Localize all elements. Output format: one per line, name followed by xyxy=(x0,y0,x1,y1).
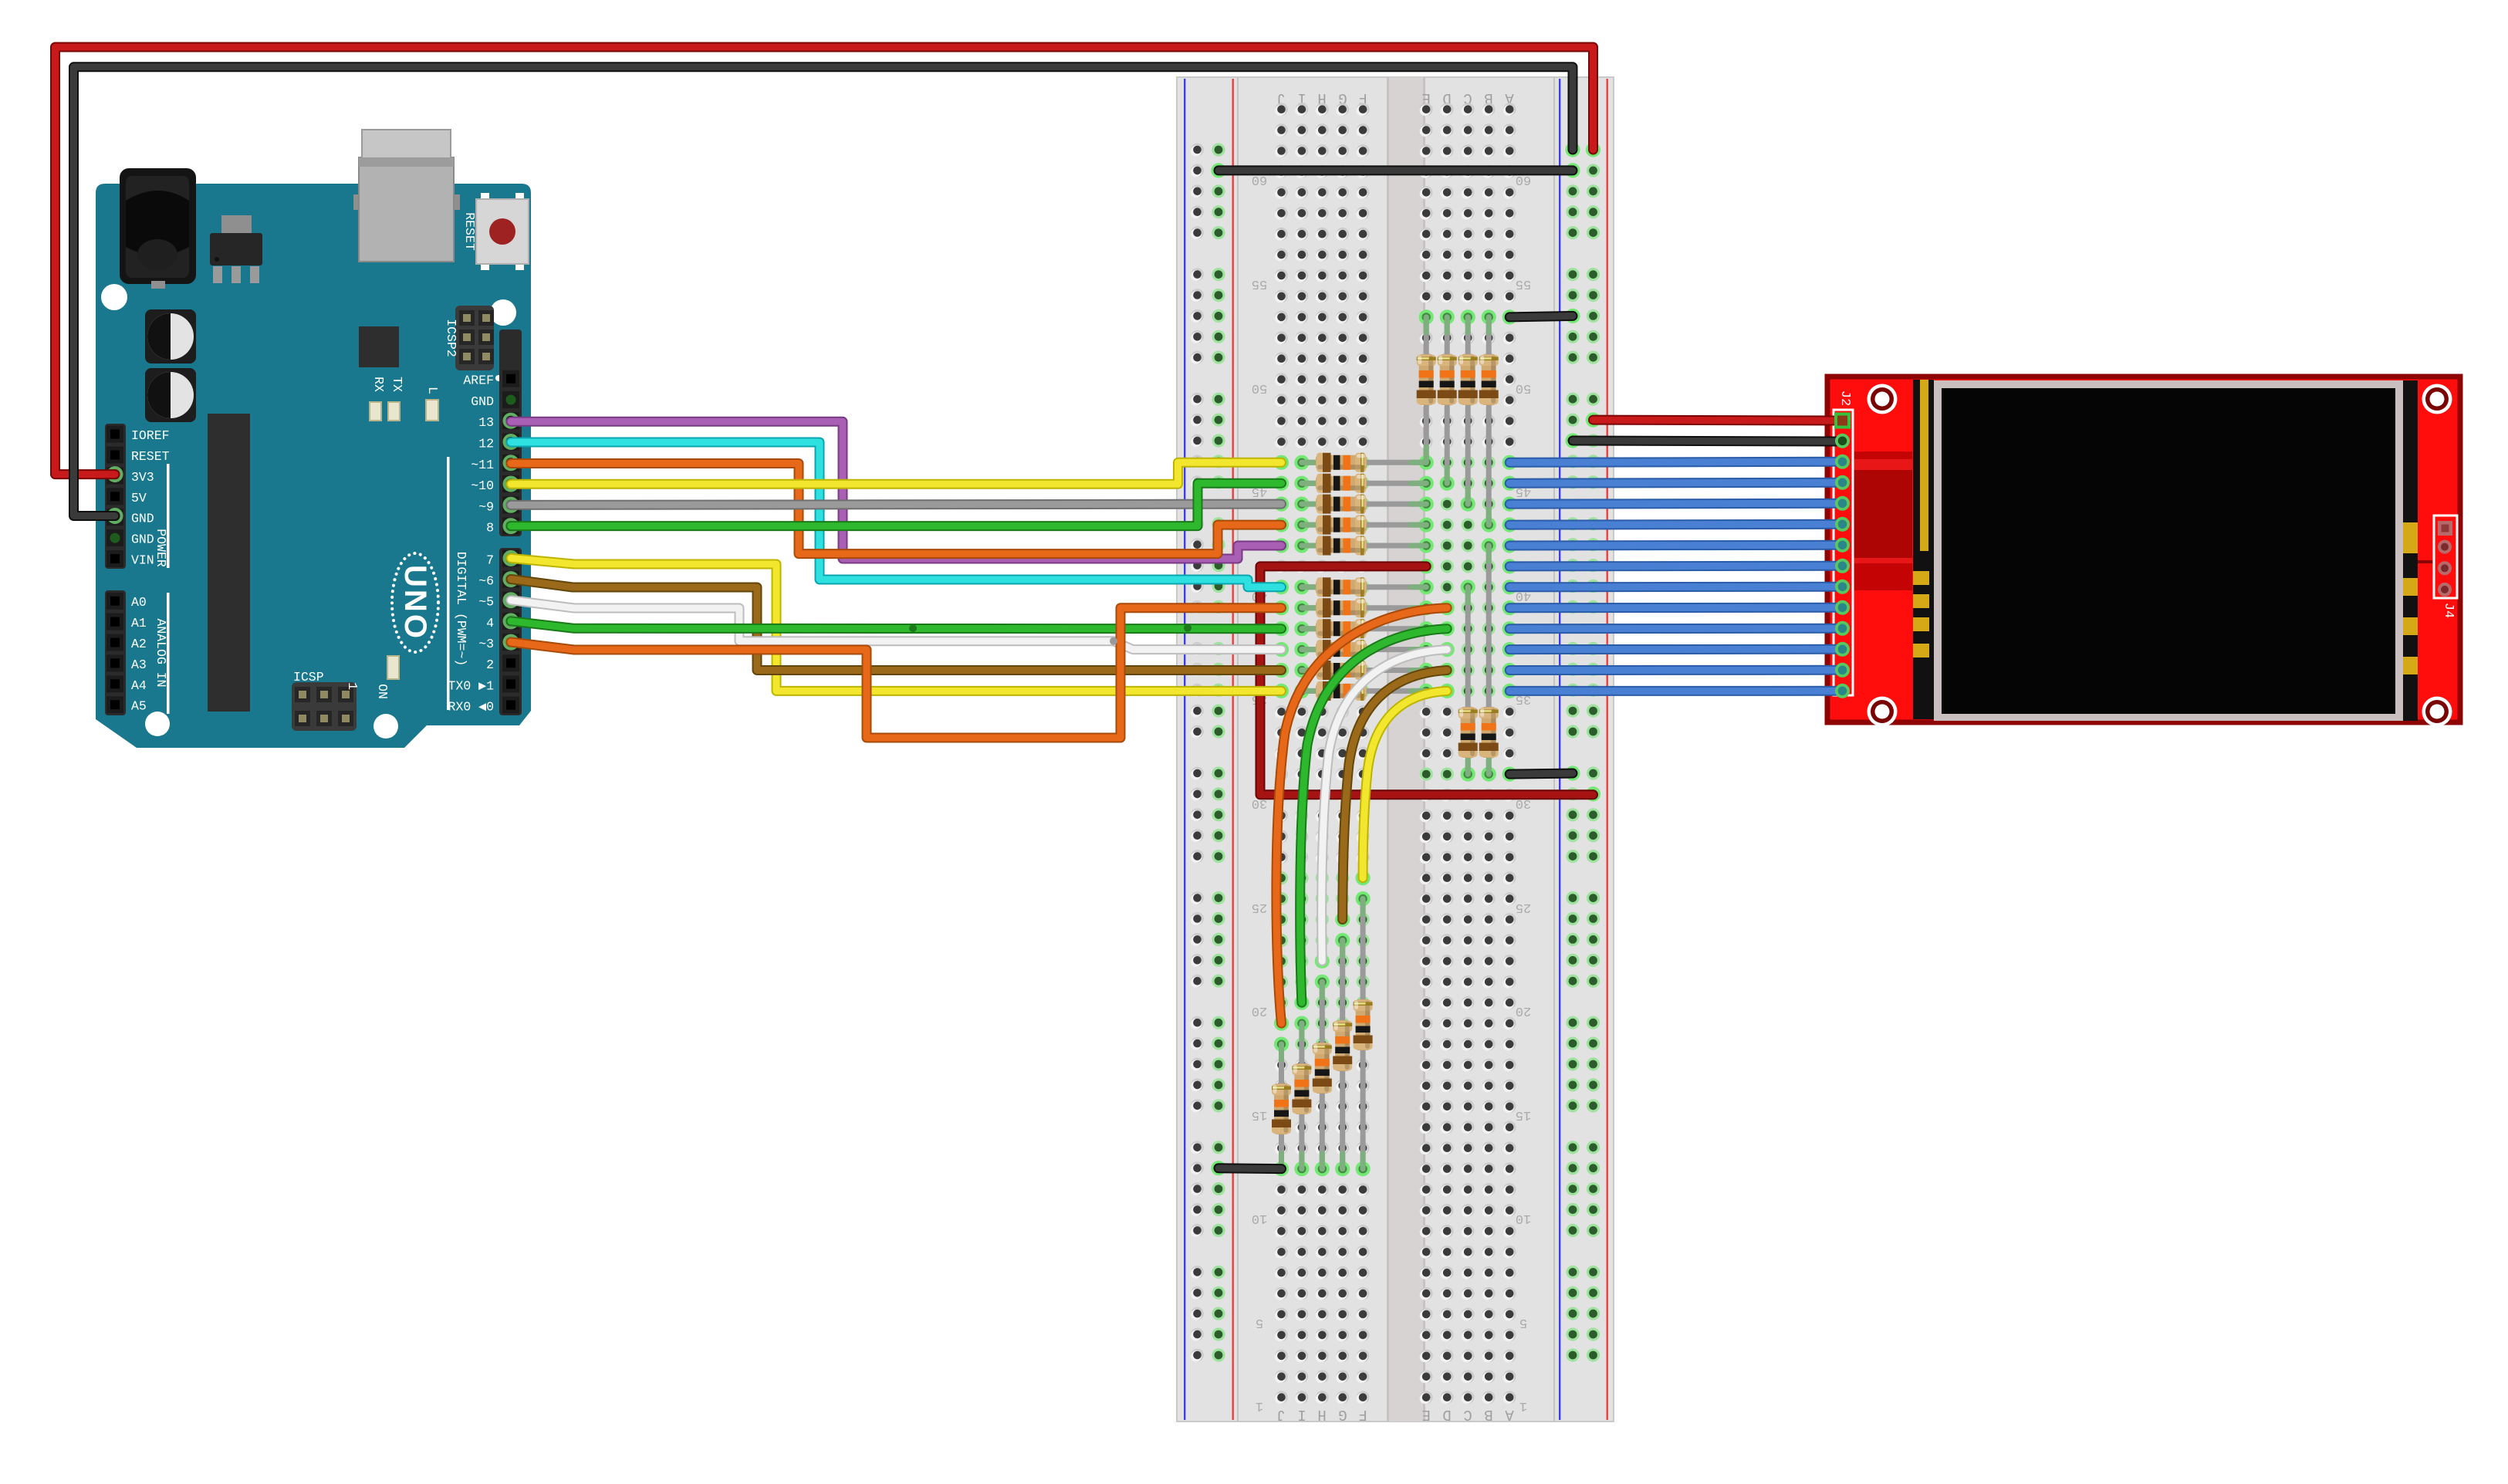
svg-text:AREF: AREF xyxy=(463,374,494,388)
svg-text:4: 4 xyxy=(486,616,494,630)
svg-text:A1: A1 xyxy=(131,616,147,630)
svg-text:A0: A0 xyxy=(131,595,147,610)
breadboard row numbers xyxy=(1252,172,1531,1413)
Arduino Uno board xyxy=(96,184,531,748)
TFT J2 pin 1 square pad xyxy=(1834,413,1851,429)
svg-text:A4: A4 xyxy=(131,678,147,693)
wire W22 purple D13 to J42 xyxy=(511,421,1282,559)
wire W2 black GND to right blue rail xyxy=(74,67,1573,516)
resistor R10 leads xyxy=(1302,668,1426,673)
svg-text:~6: ~6 xyxy=(478,574,494,589)
wire W12 blue A41 to TFT pin8 xyxy=(1509,561,1837,572)
wire W28 yellow D7 to J35 xyxy=(511,558,1282,691)
svg-text:F: F xyxy=(1358,1406,1367,1423)
svg-text:C: C xyxy=(1463,1406,1472,1423)
svg-text:UNO: UNO xyxy=(398,565,432,641)
wire W29 brown D6 to J36 xyxy=(511,580,1282,671)
breadboard right power rail holes xyxy=(1566,143,1600,1361)
resistor R17 xyxy=(1479,707,1499,758)
wire W9 blue A44 to TFT pin5 xyxy=(1509,499,1837,509)
wire W33 orange D39 to J19 xyxy=(1276,608,1447,1023)
svg-text:50: 50 xyxy=(1252,380,1267,395)
svg-text:D: D xyxy=(1442,1406,1451,1423)
svg-text:10: 10 xyxy=(1516,1211,1531,1225)
resistor R20 leads xyxy=(1320,982,1325,1168)
wire W32 orange D3 to J39 xyxy=(511,608,1282,738)
svg-text:TX0 ▶1: TX0 ▶1 xyxy=(448,678,495,693)
resistor R9 leads xyxy=(1302,647,1426,652)
resistor R7 leads xyxy=(1302,605,1426,610)
svg-text:8: 8 xyxy=(486,521,494,536)
resistor R6 xyxy=(1316,577,1367,597)
Arduino USB connector xyxy=(353,130,460,262)
TFT display board xyxy=(1827,377,2460,722)
svg-text:13: 13 xyxy=(478,415,494,430)
svg-text:55: 55 xyxy=(1252,276,1267,291)
wire W34 green D38 to I20 xyxy=(1300,629,1448,1002)
svg-text:5V: 5V xyxy=(131,491,147,505)
svg-text:5: 5 xyxy=(1256,1315,1263,1330)
svg-text:55: 55 xyxy=(1516,276,1531,291)
resistor R12 xyxy=(1417,354,1436,405)
Arduino digital pin labels xyxy=(448,374,495,715)
wire W35 white D37 to H22 xyxy=(1322,650,1447,962)
svg-text:~5: ~5 xyxy=(478,595,494,610)
resistor R17 leads xyxy=(1486,546,1492,774)
svg-text:RESET: RESET xyxy=(131,449,170,464)
wire W1 red 3V3 to right red rail xyxy=(56,47,1594,475)
svg-text:1: 1 xyxy=(1256,1398,1263,1413)
resistor R5 leads xyxy=(1302,543,1426,549)
Arduino voltage regulator xyxy=(210,215,262,283)
Arduino barrel jack xyxy=(120,168,196,289)
breadboard connection holes xyxy=(1274,309,1517,1176)
wire W3 black rail jumper row60 xyxy=(1219,165,1573,175)
svg-text:15: 15 xyxy=(1516,1107,1531,1122)
Arduino ON LED and label xyxy=(375,656,399,699)
svg-text:50: 50 xyxy=(1516,380,1531,395)
resistor R3 xyxy=(1316,495,1367,514)
Arduino digital header upper xyxy=(499,330,522,536)
wire W8 blue A45 to TFT pin4 xyxy=(1509,478,1837,488)
Arduino ATmega chip xyxy=(359,326,399,367)
resistor R9 xyxy=(1316,640,1367,659)
wire W23 cyan D12 to J40 xyxy=(511,442,1282,587)
svg-text:A3: A3 xyxy=(131,657,147,672)
wire W7 blue A46 to TFT pin3 xyxy=(1509,461,1837,462)
wire W15 blue A38 to TFT pin11 xyxy=(1509,624,1837,634)
resistor R13 leads xyxy=(1445,317,1450,483)
resistor R22 xyxy=(1354,999,1373,1050)
svg-text:7: 7 xyxy=(486,553,494,567)
TFT left flex column xyxy=(1913,380,1934,719)
Arduino reset button xyxy=(476,193,529,270)
Arduino DIGITAL label and line xyxy=(447,457,468,710)
breadboard tinted net holes right half xyxy=(1420,310,1516,780)
resistor R14 xyxy=(1458,354,1478,405)
resistor R11 leads xyxy=(1302,688,1426,694)
breadboard right red rail line xyxy=(1607,79,1608,1420)
resistor R7 xyxy=(1316,598,1367,617)
svg-text:GND: GND xyxy=(131,512,154,526)
svg-text:~9: ~9 xyxy=(478,499,494,514)
wire W26 gray D9 to J44 xyxy=(511,504,1282,505)
svg-text:J: J xyxy=(1276,1406,1285,1423)
svg-text:~10: ~10 xyxy=(471,478,494,493)
resistor R11 xyxy=(1316,681,1367,701)
TFT J2 pins 2-14 xyxy=(1835,434,1850,698)
svg-text:IOREF: IOREF xyxy=(131,428,170,443)
Arduino UNO logo xyxy=(392,553,438,652)
resistor R8 leads xyxy=(1302,626,1426,631)
TFT J2 header box xyxy=(1834,410,1853,695)
wire W24 orange D11 to J43 xyxy=(511,464,1282,554)
Arduino L LED and label xyxy=(425,387,440,421)
TFT J4 connector xyxy=(2418,516,2457,598)
resistor R18 leads xyxy=(1279,1044,1284,1169)
resistor R4 leads xyxy=(1302,522,1426,528)
resistor R19 xyxy=(1292,1063,1311,1114)
wire W30 white D5 to J37 xyxy=(511,600,1282,650)
svg-text:POWER: POWER xyxy=(154,529,168,567)
Arduino mounting holes xyxy=(101,284,516,739)
resistor R19 leads xyxy=(1299,1023,1304,1169)
wire W4 black A53 to blue rail xyxy=(1509,316,1573,317)
Arduino TX RX LEDs xyxy=(370,402,400,421)
wire W6 black rail to TFT pin2 xyxy=(1573,441,1837,441)
wire W11 blue A42 to TFT pin7 xyxy=(1509,540,1837,551)
svg-text:A5: A5 xyxy=(131,699,147,714)
wire W10 blue A43 to TFT pin6 xyxy=(1509,519,1837,530)
resistor R22 leads xyxy=(1360,899,1366,1169)
svg-text:DIGITAL (PWM=~): DIGITAL (PWM=~) xyxy=(454,552,468,667)
svg-text:3V3: 3V3 xyxy=(131,470,154,485)
wire W18 blue A35 to TFT pin14 xyxy=(1509,686,1837,696)
resistor R6 leads xyxy=(1302,584,1426,590)
wire W36 brown D36 to G24 xyxy=(1343,671,1448,920)
svg-text:5: 5 xyxy=(1519,1315,1527,1330)
resistor R18 xyxy=(1272,1083,1291,1134)
svg-text:TX: TX xyxy=(390,377,404,392)
wire W20 dark red E41 to right red rail xyxy=(1260,566,1594,795)
svg-text:J4: J4 xyxy=(2441,603,2456,618)
wire W5 red rail to TFT pin1 xyxy=(1594,415,1837,426)
svg-text:ON: ON xyxy=(375,684,390,699)
svg-text:~11: ~11 xyxy=(471,458,494,472)
Arduino RX TX labels xyxy=(371,377,404,392)
wire W17 blue A36 to TFT pin13 xyxy=(1509,665,1837,675)
Arduino power header xyxy=(105,424,126,569)
TFT mounting holes xyxy=(1867,384,1898,414)
wire W19 black A31 to blue rail xyxy=(1509,773,1573,774)
resistor R15 leads xyxy=(1486,317,1492,525)
svg-text:RX: RX xyxy=(371,377,386,392)
resistor R2 xyxy=(1316,474,1367,493)
svg-text:2: 2 xyxy=(486,657,494,672)
wire W21 black J12 to left rail xyxy=(1219,1163,1282,1174)
svg-text:ICSP2: ICSP2 xyxy=(444,319,458,357)
Arduino power pin labels xyxy=(131,428,170,567)
resistor R3 leads xyxy=(1302,502,1426,507)
svg-text:B: B xyxy=(1484,1406,1492,1423)
wire W13 blue A40 to TFT pin9 xyxy=(1509,582,1837,593)
breadboard left red rail line xyxy=(1232,79,1234,1420)
wire W25 yellow D10 to J46 xyxy=(511,462,1282,484)
svg-text:GND: GND xyxy=(471,394,494,409)
svg-text:I: I xyxy=(1297,1406,1306,1423)
resistor R8 xyxy=(1316,619,1367,638)
resistor R2 leads xyxy=(1302,481,1426,486)
resistor R1 leads xyxy=(1302,460,1426,465)
wire W14 blue A39 to TFT pin10 xyxy=(1509,603,1837,613)
TFT screen xyxy=(1942,388,2395,714)
svg-text:GND: GND xyxy=(131,532,154,547)
svg-text:A2: A2 xyxy=(131,637,147,651)
svg-text:12: 12 xyxy=(478,437,494,451)
svg-text:E: E xyxy=(1421,1406,1430,1423)
wire bend points xyxy=(909,624,1191,645)
TFT right flex column xyxy=(2403,380,2418,721)
Arduino analog pin labels xyxy=(131,595,147,714)
svg-text:A: A xyxy=(1505,1406,1514,1423)
Arduino ICSP header xyxy=(292,682,357,731)
svg-text:G: G xyxy=(1338,1406,1347,1423)
Arduino electrolytic capacitor C1 xyxy=(145,309,196,363)
svg-text:ANALOG IN: ANALOG IN xyxy=(154,618,168,687)
TFT screen bezel xyxy=(1934,380,2403,721)
wire W27 green D8 to J45 xyxy=(511,483,1282,526)
svg-text:1: 1 xyxy=(344,682,359,690)
breadboard tinted net holes left half xyxy=(1275,456,1370,1175)
resistor R16 leads xyxy=(1465,587,1471,774)
breadboard left blue rail line xyxy=(1184,79,1185,1420)
Arduino ANALOG IN label and line xyxy=(154,593,170,714)
svg-text:RESET: RESET xyxy=(462,212,477,251)
svg-text:H: H xyxy=(1317,1406,1326,1423)
Arduino wired pin glow rings xyxy=(109,414,518,649)
resistor R4 xyxy=(1316,516,1367,535)
svg-text:L: L xyxy=(425,387,440,394)
svg-text:1: 1 xyxy=(1519,1398,1527,1413)
resistor R16 xyxy=(1458,707,1478,758)
svg-text:20: 20 xyxy=(1516,1003,1531,1018)
wire W16 blue A37 to TFT pin12 xyxy=(1509,644,1837,654)
resistor R10 xyxy=(1316,661,1367,680)
breadboard body xyxy=(1177,77,1614,1421)
svg-text:J2: J2 xyxy=(1837,390,1852,406)
svg-text:15: 15 xyxy=(1252,1107,1267,1122)
svg-text:~3: ~3 xyxy=(478,637,494,651)
breadboard right blue rail line xyxy=(1559,79,1560,1420)
resistor R21 xyxy=(1333,1020,1352,1071)
Arduino analog header xyxy=(105,590,126,715)
breadboard column letters xyxy=(1276,90,1513,1423)
resistor R1 xyxy=(1316,453,1367,472)
resistor R14 leads xyxy=(1465,317,1471,504)
svg-text:VIN: VIN xyxy=(131,553,154,568)
resistor R21 leads xyxy=(1340,941,1345,1169)
svg-text:ICSP: ICSP xyxy=(293,670,324,685)
resistor R20 xyxy=(1313,1043,1332,1094)
svg-text:25: 25 xyxy=(1516,900,1531,914)
wire W31 green D4 to J38 xyxy=(511,621,1282,629)
resistor R12 leads xyxy=(1424,317,1429,462)
resistor R13 xyxy=(1438,354,1457,405)
wire W37 yellow D35 to F26 xyxy=(1363,691,1447,877)
resistor R5 xyxy=(1316,536,1367,556)
breadboard main grid holes xyxy=(1275,103,1516,1404)
svg-text:10: 10 xyxy=(1252,1211,1267,1225)
Arduino POWER label and line xyxy=(154,464,170,568)
Arduino DIP socket xyxy=(208,414,250,712)
resistor R15 xyxy=(1479,354,1499,405)
Arduino ICSP2 header xyxy=(455,306,494,370)
breadboard left power rail holes xyxy=(1191,143,1225,1361)
svg-text:25: 25 xyxy=(1252,900,1267,914)
TFT dark red regions xyxy=(1853,451,1912,590)
breadboard power rail connection holes xyxy=(1211,142,1600,1175)
svg-text:RX0 ◀0: RX0 ◀0 xyxy=(448,700,494,715)
svg-text:20: 20 xyxy=(1252,1003,1267,1018)
Arduino electrolytic capacitor C2 xyxy=(145,368,196,422)
Arduino digital header lower xyxy=(499,548,522,715)
